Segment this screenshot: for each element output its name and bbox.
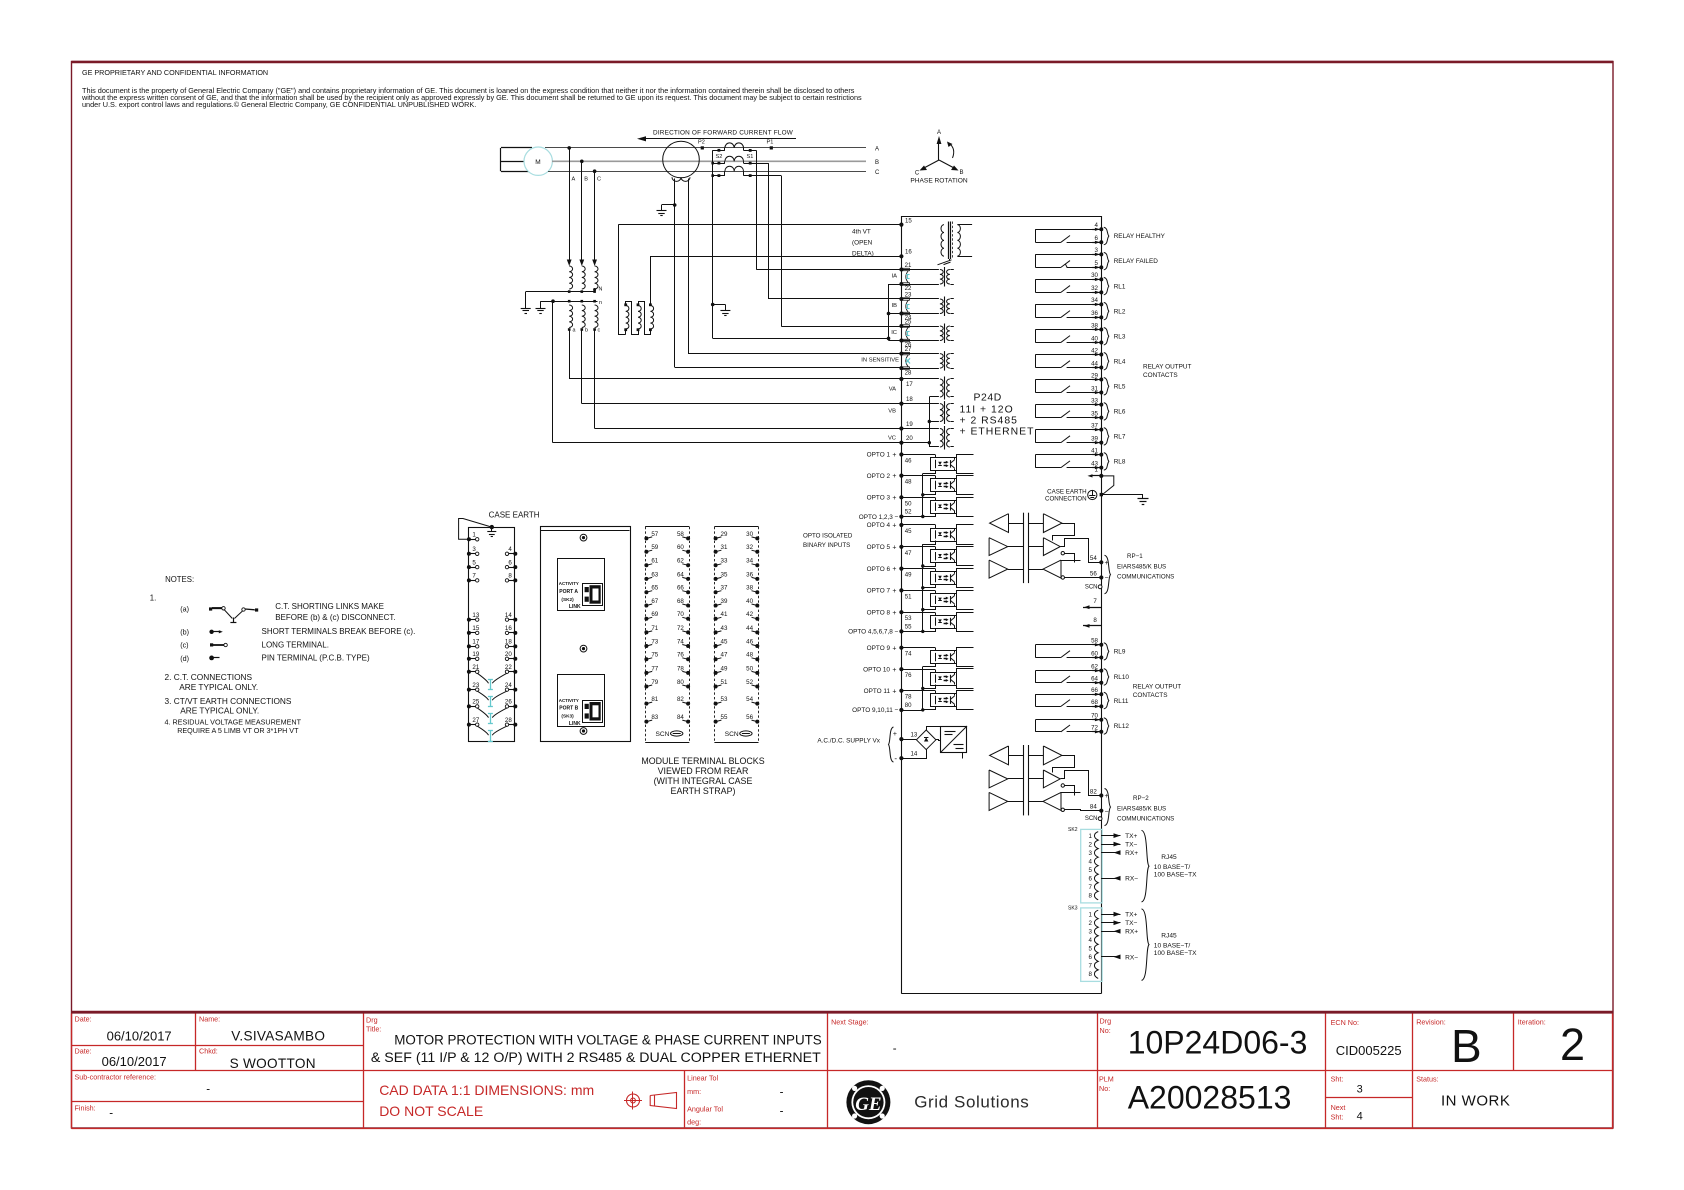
svg-text:65: 65 — [651, 585, 658, 592]
svg-text:b: b — [585, 328, 588, 334]
opto isolator at y546 — [931, 550, 957, 563]
svg-text:DO NOT SCALE: DO NOT SCALE — [379, 1103, 483, 1119]
svg-text:8: 8 — [1089, 893, 1093, 900]
svg-text:10 BASE−T/: 10 BASE−T/ — [1154, 942, 1191, 949]
svg-text:(OPEN: (OPEN — [852, 240, 873, 247]
svg-text:Sht:: Sht: — [1331, 1075, 1344, 1084]
svg-text:4: 4 — [1357, 1111, 1363, 1123]
svg-text:OPTO 6: OPTO 6 — [867, 566, 891, 573]
svg-text:IC: IC — [891, 330, 897, 336]
opto isolator at y690 — [931, 694, 957, 707]
svg-text:ACTIVITY: ACTIVITY — [559, 698, 579, 703]
svg-text:VIEWED FROM REAR: VIEWED FROM REAR — [658, 766, 749, 776]
svg-text:LINK: LINK — [569, 604, 581, 610]
opto isolator at y568 — [931, 572, 957, 585]
svg-text:RP−2: RP−2 — [1133, 795, 1149, 802]
relay output contact RL8 terminals 41-43 — [1035, 454, 1101, 456]
DC-DC converter — [941, 727, 967, 753]
svg-text:71: 71 — [651, 625, 658, 632]
svg-text:RELAY HEALTHY: RELAY HEALTHY — [1114, 233, 1166, 240]
line CT phase A winding — [725, 143, 744, 148]
SK2 TX+ arrow — [1102, 835, 1121, 837]
svg-text:8: 8 — [1089, 971, 1093, 978]
CT S1 leads — [743, 148, 745, 151]
svg-text:40: 40 — [1091, 335, 1098, 342]
svg-text:−: − — [1105, 808, 1109, 815]
svg-text:RL2: RL2 — [1114, 308, 1126, 315]
svg-text:3: 3 — [1357, 1084, 1363, 1096]
SK3 RX− arrow — [1102, 956, 1121, 958]
svg-text:RP−1: RP−1 — [1127, 553, 1143, 560]
VT common rail to terminal 20 — [929, 397, 931, 447]
wire S1B to terminal 23 — [768, 298, 901, 300]
svg-text:n: n — [599, 300, 602, 306]
svg-text:RL1: RL1 — [1114, 283, 1126, 290]
svg-text:Sht:: Sht: — [1331, 1113, 1344, 1122]
svg-text:5: 5 — [472, 559, 476, 566]
CT S2 leads and common rail — [724, 148, 726, 150]
core balance CT secondary winding — [672, 177, 690, 181]
svg-text:44: 44 — [1091, 360, 1098, 367]
svg-text:B: B — [1451, 1020, 1482, 1072]
svg-text:75: 75 — [651, 652, 658, 659]
svg-text:29: 29 — [721, 531, 728, 538]
svg-text:6: 6 — [1089, 875, 1093, 882]
interposing VT coils for 4th VT open delta — [626, 306, 629, 330]
svg-text:RL9: RL9 — [1114, 649, 1126, 656]
wire VT b to terminal 18 — [581, 330, 583, 404]
core balance CT ring — [663, 141, 700, 178]
opto group return rail to terminal 80 — [922, 667, 924, 710]
svg-text:58: 58 — [1091, 638, 1098, 645]
svg-text:35: 35 — [1091, 410, 1098, 417]
svg-text:Drg: Drg — [366, 1016, 378, 1025]
svg-text:5: 5 — [1095, 260, 1099, 267]
svg-text:MOTOR PROTECTION WITH VOLTAGE: MOTOR PROTECTION WITH VOLTAGE & PHASE CU… — [394, 1033, 822, 1048]
svg-text:Next Stage:: Next Stage: — [831, 1018, 869, 1027]
svg-text:73: 73 — [651, 638, 658, 645]
tolerance cell — [684, 1070, 686, 1128]
svg-text:REQUIRE A 5 LIMB VT OR 3: REQUIRE A 5 LIMB VT OR 3*1PH VT — [177, 726, 299, 735]
S2 rail earth tap — [711, 303, 715, 307]
svg-text:mm:: mm: — [687, 1087, 701, 1096]
svg-text:CONTACTS: CONTACTS — [1133, 692, 1168, 699]
svg-text:−: − — [1105, 575, 1109, 582]
svg-text:RELAY FAILED: RELAY FAILED — [1114, 258, 1159, 265]
svg-text:49: 49 — [721, 665, 728, 672]
relay output contact RL1 terminals 30-32 — [1035, 279, 1101, 281]
RS485 isolation barrier at y523 — [1023, 513, 1025, 583]
svg-text:14: 14 — [911, 751, 918, 758]
relay output contact RL12 terminals 70-72 — [1035, 719, 1101, 721]
svg-text:P1: P1 — [767, 140, 774, 146]
svg-text:17: 17 — [906, 381, 913, 388]
SK3 RX+ arrow — [1102, 931, 1121, 933]
opto isolator at y497 — [931, 501, 957, 514]
svg-text:DIRECTION OF FORWARD CURREN: DIRECTION OF FORWARD CURRENT FLOW — [653, 130, 794, 137]
svg-text:23: 23 — [905, 292, 912, 299]
4th VT screen earth mark — [949, 259, 951, 261]
VT primary polarity arrows — [567, 260, 572, 267]
case earth ground symbol — [1101, 494, 1143, 496]
svg-text:50: 50 — [905, 500, 912, 507]
svg-text:(SK3): (SK3) — [561, 714, 574, 719]
svg-text:Linear Tol: Linear Tol — [687, 1074, 718, 1083]
svg-text:Angular Tol: Angular Tol — [687, 1105, 723, 1114]
svg-text:LONG TERMINAL.: LONG TERMINAL. — [262, 640, 329, 649]
svg-text:45: 45 — [905, 528, 912, 535]
phase bus A — [545, 147, 866, 149]
svg-text:Date:: Date: — [75, 1015, 92, 1024]
svg-text:RJ45: RJ45 — [1161, 932, 1177, 939]
svg-text:7: 7 — [1089, 963, 1093, 970]
svg-text:RL12: RL12 — [1114, 723, 1130, 730]
title block grid — [71, 1014, 73, 1129]
svg-text:(b): (b) — [180, 628, 189, 637]
svg-text:54: 54 — [1090, 555, 1097, 562]
svg-text:70: 70 — [1091, 713, 1098, 720]
CT terminal P2 — [701, 146, 704, 149]
svg-text:VA: VA — [889, 386, 896, 392]
svg-text:+: + — [892, 495, 896, 502]
relay output contact RELAY HEALTHY terminals 4-6 — [1035, 229, 1101, 231]
wire S1C to terminal 25 — [781, 326, 901, 328]
opto isolator at y669 — [931, 673, 957, 686]
RS485 isolation barrier at y755 — [1023, 745, 1025, 815]
svg-text:55: 55 — [721, 714, 728, 721]
svg-text:(WITH INTEGRAL CASE: (WITH INTEGRAL CASE — [654, 776, 753, 786]
motor M — [500, 148, 502, 171]
RS485 interconnect wires — [1053, 524, 1075, 541]
opto isolator at y612 — [931, 616, 957, 629]
svg-text:+: + — [892, 544, 896, 551]
svg-text:OPTO 5: OPTO 5 — [867, 544, 891, 551]
svg-text:GE: GE — [855, 1094, 881, 1115]
port B RJ45 jack — [583, 701, 603, 723]
front panel outline — [541, 527, 631, 742]
svg-text:4: 4 — [508, 546, 512, 553]
svg-text:+: + — [892, 473, 896, 480]
svg-text:69: 69 — [651, 611, 658, 618]
svg-text:21: 21 — [905, 262, 912, 269]
VT input VA terminal 17 — [899, 377, 903, 381]
svg-text:42: 42 — [1091, 347, 1098, 354]
svg-text:BINARY INPUTS: BINARY INPUTS — [803, 542, 850, 549]
svg-text:3: 3 — [1095, 247, 1099, 254]
svg-text:Sub-contractor reference:: Sub-contractor reference: — [75, 1073, 157, 1082]
opto input OPTO 4 terminal 45 — [899, 523, 903, 527]
svg-text:2: 2 — [1089, 841, 1093, 848]
wire 13 to bridge — [901, 739, 916, 741]
svg-text:a: a — [573, 328, 576, 334]
svg-text:A: A — [572, 177, 576, 183]
svg-text:-: - — [893, 1043, 897, 1055]
SK3 TX+ arrow — [1102, 914, 1121, 916]
svg-text:under U.S. export control laws: under U.S. export control laws and regul… — [82, 100, 476, 109]
CBCT earth tap — [673, 203, 677, 207]
svg-text:5: 5 — [1089, 867, 1093, 874]
open delta link bars — [626, 302, 639, 335]
svg-text:3: 3 — [1089, 850, 1093, 857]
svg-text:ACTIVITY: ACTIVITY — [559, 581, 579, 586]
wire VT a to terminal 17 — [569, 330, 571, 380]
svg-text:A20028513: A20028513 — [1128, 1080, 1292, 1116]
module terminal block — [714, 526, 758, 528]
svg-text:06/10/2017: 06/10/2017 — [102, 1054, 167, 1069]
svg-text:10P24D06-3: 10P24D06-3 — [1128, 1025, 1308, 1061]
svg-text:19: 19 — [906, 421, 913, 428]
svg-text:49: 49 — [905, 572, 912, 579]
svg-text:83: 83 — [651, 714, 658, 721]
svg-text:+: + — [892, 452, 896, 459]
svg-text:41: 41 — [1091, 447, 1098, 454]
RS485 buffer triangles left — [990, 514, 1009, 533]
rectifier bridge — [916, 730, 936, 750]
svg-text:53: 53 — [721, 696, 728, 703]
svg-text:OPTO 4: OPTO 4 — [867, 522, 891, 529]
svg-text:38: 38 — [1091, 322, 1098, 329]
wire S1A to terminal 21 — [756, 269, 901, 271]
svg-text:PORT B: PORT B — [559, 706, 578, 712]
svg-text:4: 4 — [1095, 222, 1099, 229]
svg-text:66: 66 — [1091, 687, 1098, 694]
line CT phase B winding — [725, 156, 744, 161]
opto input OPTO 2 terminal 48 — [899, 474, 903, 478]
svg-text:74: 74 — [905, 651, 912, 658]
svg-text:47: 47 — [721, 652, 728, 659]
VT primary earth — [525, 292, 527, 309]
svg-text:3: 3 — [472, 546, 476, 553]
svg-text:11I + 12O: 11I + 12O — [960, 405, 1014, 416]
svg-text:S1: S1 — [747, 154, 754, 160]
svg-text:PIN TERMINAL (P.C.B. TYPE): PIN TERMINAL (P.C.B. TYPE) — [262, 653, 371, 662]
CT terminal P1 — [770, 146, 773, 149]
opto group return rail to terminal 55 — [922, 544, 924, 631]
case earth connection wire and symbol — [1101, 476, 1114, 495]
svg-text:Date:: Date: — [75, 1047, 92, 1056]
svg-text:RJ45: RJ45 — [1161, 854, 1177, 861]
svg-text:A: A — [875, 147, 879, 153]
svg-text:CONTACTS: CONTACTS — [1143, 372, 1178, 379]
svg-text:56: 56 — [1090, 570, 1097, 577]
svg-text:13: 13 — [911, 732, 918, 739]
pin terminal 8 — [1083, 625, 1101, 627]
svg-text:VB: VB — [888, 409, 896, 415]
case earth terminal 1 — [1088, 474, 1093, 477]
svg-text:18: 18 — [906, 396, 913, 403]
svg-text:6: 6 — [1089, 954, 1093, 961]
relay output contact RL9 terminals 58-60 — [1035, 644, 1101, 646]
svg-text:41: 41 — [721, 611, 728, 618]
wire 14 to bridge — [902, 750, 927, 759]
svg-text:59: 59 — [651, 544, 658, 551]
svg-text:-: - — [894, 754, 897, 763]
legend symbol c — [210, 643, 213, 646]
svg-text:M: M — [535, 159, 540, 166]
svg-text:EARTH STRAP): EARTH STRAP) — [671, 786, 736, 796]
svg-text:25: 25 — [905, 319, 912, 326]
svg-text:62: 62 — [1091, 663, 1098, 670]
svg-text:35: 35 — [721, 571, 728, 578]
svg-text:OPTO 7: OPTO 7 — [867, 588, 891, 595]
svg-text:deg:: deg: — [687, 1118, 701, 1127]
svg-text:100 BASE−TX: 100 BASE−TX — [1154, 871, 1197, 878]
svg-text:OPTO 2: OPTO 2 — [867, 473, 891, 480]
svg-text:RX+: RX+ — [1125, 850, 1138, 857]
opto input OPTO 1 terminal 46 — [899, 452, 903, 456]
VT secondary earth — [540, 301, 542, 308]
svg-text:A: A — [937, 130, 941, 136]
svg-text:TX−: TX− — [1125, 842, 1137, 849]
svg-text:+ 2 RS485: + 2 RS485 — [960, 416, 1018, 427]
svg-text:33: 33 — [721, 558, 728, 565]
svg-text:RELAY OUTPUT: RELAY OUTPUT — [1133, 684, 1182, 691]
svg-text:B: B — [875, 160, 879, 166]
svg-text:RX+: RX+ — [1125, 929, 1138, 936]
svg-text:61: 61 — [651, 558, 658, 565]
svg-text:+: + — [892, 566, 896, 573]
opto input OPTO 7 terminal 51 — [899, 588, 903, 592]
svg-text:30: 30 — [1091, 272, 1098, 279]
svg-text:37: 37 — [1091, 422, 1098, 429]
svg-text:S WOOTTON: S WOOTTON — [230, 1056, 316, 1071]
case earth strip outline — [469, 528, 515, 742]
svg-text:55: 55 — [905, 623, 912, 630]
CT shorting links rows 21-28 — [490, 679, 492, 689]
svg-text:CID005225: CID005225 — [1336, 1043, 1402, 1058]
svg-text:CONNECTION: CONNECTION — [1045, 496, 1087, 503]
svg-text:SCN: SCN — [1085, 816, 1098, 822]
wire open delta lead to terminal 16 — [651, 257, 902, 305]
ethernet port SK3 connector — [1081, 908, 1102, 982]
svg-text:45: 45 — [721, 638, 728, 645]
svg-text:52: 52 — [905, 509, 912, 516]
svg-text:28: 28 — [905, 369, 912, 376]
svg-text:Chkd:: Chkd: — [199, 1047, 218, 1056]
svg-text:MODULE TERMINAL BLOCKS: MODULE TERMINAL BLOCKS — [641, 756, 764, 766]
relay output contact RL7 terminals 37-39 — [1035, 429, 1101, 431]
svg-text:No:: No: — [1100, 1026, 1111, 1035]
legend symbol b — [209, 630, 213, 634]
svg-text:SCN: SCN — [725, 731, 739, 738]
relay output contact RL11 terminals 66-68 — [1035, 694, 1101, 696]
wire S2 common to CT loop 22-24-26 — [713, 338, 889, 340]
RS485 buffer triangles left — [990, 746, 1009, 765]
svg-text:N: N — [599, 287, 603, 293]
opto isolator at y525 — [931, 529, 957, 542]
svg-text:ECN No:: ECN No: — [1331, 1018, 1359, 1027]
wire open delta lead to terminal 15 — [619, 225, 626, 335]
svg-text:NOTES:: NOTES: — [165, 575, 194, 584]
VT secondary common n — [541, 301, 598, 303]
activity port A block — [558, 559, 605, 611]
svg-text:TX−: TX− — [1125, 920, 1137, 927]
svg-text:C: C — [597, 177, 601, 183]
svg-text:OPTO 3: OPTO 3 — [867, 495, 891, 502]
opto isolator at y475 — [931, 479, 957, 492]
svg-text:RX−: RX− — [1125, 876, 1138, 883]
svg-text:51: 51 — [721, 679, 728, 686]
CT 22-24-26 common loop — [889, 285, 902, 339]
svg-text:OPTO 9: OPTO 9 — [867, 645, 891, 652]
svg-text:C: C — [875, 170, 880, 176]
svg-text:48: 48 — [905, 479, 912, 486]
wire VT n to terminal 20 — [552, 301, 554, 443]
svg-text:8: 8 — [508, 573, 512, 580]
svg-text:27: 27 — [905, 346, 912, 353]
svg-text:43: 43 — [721, 625, 728, 632]
wire bridge to DC-DC — [927, 727, 941, 731]
svg-text:32: 32 — [1091, 285, 1098, 292]
svg-text:Drg: Drg — [1100, 1017, 1112, 1026]
svg-text:4: 4 — [1089, 858, 1093, 865]
svg-text:7: 7 — [1093, 598, 1097, 605]
svg-text:1.: 1. — [150, 594, 157, 603]
svg-text:8: 8 — [1093, 617, 1097, 624]
svg-text:CAD DATA 1:1 DIMENSIONS: mm: CAD DATA 1:1 DIMENSIONS: mm — [379, 1082, 594, 1098]
svg-text:67: 67 — [651, 598, 658, 605]
svg-text:2. C.T. CONNECTIONS: 2. C.T. CONNECTIONS — [165, 672, 253, 682]
svg-text:OPTO 11: OPTO 11 — [864, 688, 891, 695]
svg-text:LINK: LINK — [569, 721, 581, 727]
RS485 buffer triangles right — [1043, 514, 1062, 533]
svg-text:RELAY OUTPUT: RELAY OUTPUT — [1143, 364, 1192, 371]
svg-text:Status:: Status: — [1416, 1075, 1438, 1084]
svg-text:RL7: RL7 — [1114, 434, 1126, 441]
svg-text:c: c — [598, 328, 601, 334]
opto isolator at y647 — [931, 651, 957, 664]
svg-text:+: + — [892, 688, 896, 695]
svg-text:RL10: RL10 — [1114, 674, 1130, 681]
svg-text:SK3: SK3 — [1068, 906, 1078, 912]
svg-text:31: 31 — [721, 544, 728, 551]
svg-text:TX+: TX+ — [1125, 912, 1137, 919]
svg-text:ARE TYPICAL ONLY.: ARE TYPICAL ONLY. — [179, 682, 258, 692]
svg-text:(d): (d) — [180, 654, 189, 663]
opto group return rail to terminal 52 — [922, 474, 924, 517]
svg-text:IN SENSITIVE: IN SENSITIVE — [861, 358, 899, 364]
ethernet port SK2 connector — [1081, 829, 1102, 903]
SK2 RX− arrow — [1102, 878, 1121, 880]
svg-text:6: 6 — [1095, 235, 1099, 242]
svg-text:5: 5 — [1089, 946, 1093, 953]
wire CBCT lead to terminal 28 — [674, 179, 676, 368]
svg-text:84: 84 — [1090, 804, 1097, 811]
svg-text:RL3: RL3 — [1114, 333, 1126, 340]
RS485 terminals — [1099, 793, 1103, 797]
svg-text:Grid Solutions: Grid Solutions — [914, 1093, 1029, 1112]
svg-text:SCN: SCN — [1085, 584, 1098, 590]
svg-text:OPTO 8: OPTO 8 — [867, 609, 891, 616]
svg-text:3. CT/VT EARTH CONNECTIONS: 3. CT/VT EARTH CONNECTIONS — [165, 696, 292, 706]
svg-text:V.SIVASAMBO: V.SIVASAMBO — [231, 1029, 325, 1044]
svg-text:06/10/2017: 06/10/2017 — [107, 1029, 172, 1044]
line CT phase C winding — [725, 166, 744, 171]
svg-text:15: 15 — [905, 217, 912, 224]
pin terminal 7 — [1083, 607, 1101, 609]
opto input OPTO 9 terminal 74 — [899, 646, 903, 650]
opto input OPTO 6 terminal 49 — [899, 567, 903, 571]
phase rotation diagram — [938, 140, 940, 160]
svg-text:+: + — [892, 588, 896, 595]
port A RJ45 jack — [583, 584, 603, 606]
svg-text:60: 60 — [1091, 650, 1098, 657]
svg-text:OPTO 4,5,6,7,8 −: OPTO 4,5,6,7,8 − — [848, 629, 898, 636]
RS485 terminals — [1099, 560, 1103, 564]
phase bus C — [548, 171, 866, 173]
svg-text:47: 47 — [905, 550, 912, 557]
SK2 TX− arrow — [1102, 844, 1121, 846]
